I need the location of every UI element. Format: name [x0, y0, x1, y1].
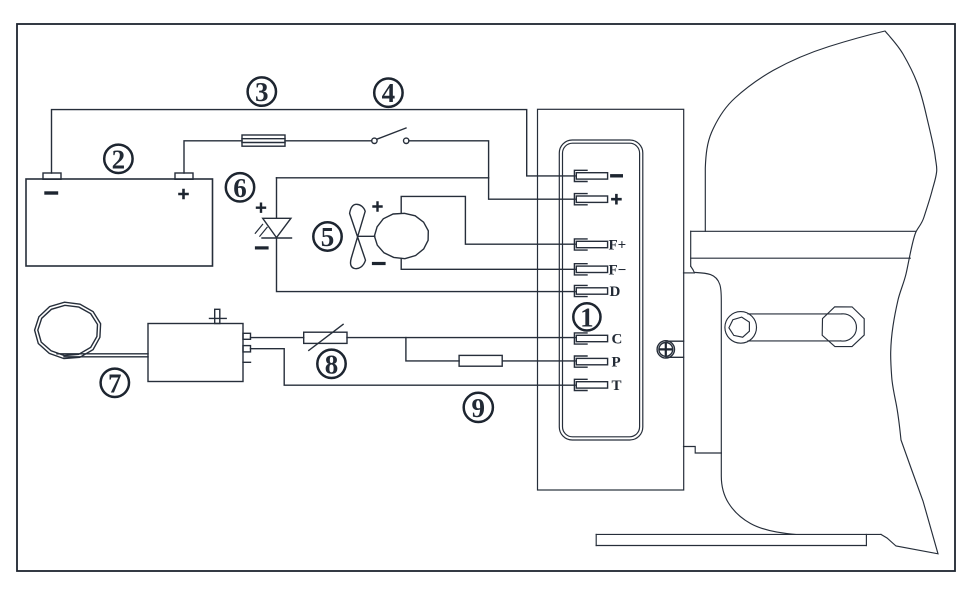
circled 9	[464, 393, 493, 423]
wire thermostat to thermistor	[251, 337, 304, 339]
svg-text:C: C	[612, 332, 623, 348]
circled 5	[313, 222, 341, 252]
label minus	[612, 174, 622, 177]
circled 7	[101, 368, 129, 398]
fuse 3	[242, 135, 285, 146]
wire motor minus to F- terminal	[401, 259, 575, 270]
terminal F-	[574, 264, 607, 275]
wire LED to D terminal	[277, 238, 576, 292]
compressor left lower bracket and body edge	[691, 266, 795, 534]
resistor 9	[459, 355, 502, 366]
thermostat capillary tube	[57, 354, 148, 357]
circled 6	[226, 173, 254, 203]
wire motor plus to F+ terminal	[401, 196, 575, 244]
svg-text:F+: F+	[609, 238, 627, 254]
circled 8	[317, 349, 345, 379]
svg-text:4: 4	[382, 78, 396, 108]
battery 2	[26, 173, 213, 266]
wire resistor to P terminal	[502, 360, 575, 362]
svg-text:1: 1	[580, 302, 594, 332]
compressor flange band	[691, 231, 916, 266]
terminal P	[574, 356, 607, 367]
wire switch to unit plus terminal	[409, 141, 575, 199]
wire battery plus to fuse	[184, 141, 242, 173]
svg-text:7: 7	[108, 368, 122, 398]
fan motor	[374, 213, 428, 258]
svg-text:P: P	[612, 355, 621, 371]
fan plus label	[374, 203, 382, 211]
terminal F+	[574, 239, 607, 250]
wire battery minus to unit minus terminal	[52, 110, 576, 176]
svg-text:T: T	[612, 378, 622, 394]
fan 5	[350, 204, 366, 268]
wire branch to resistor	[406, 338, 459, 361]
electronic unit 1 outer box	[538, 109, 684, 490]
circled 2	[104, 144, 132, 174]
thermostat 7 coil	[35, 302, 101, 358]
compressor bracket bottom	[684, 447, 722, 454]
wire thermistor to C terminal	[347, 337, 575, 339]
terminal plus	[574, 194, 607, 205]
terminal C	[574, 333, 607, 344]
svg-text:3: 3	[255, 77, 269, 107]
LED 6	[255, 178, 291, 248]
circled 4	[374, 78, 402, 108]
svg-text:2: 2	[112, 144, 126, 174]
fan minus label	[374, 262, 385, 265]
compressor shell outline	[705, 31, 938, 554]
svg-text:8: 8	[325, 349, 339, 379]
svg-text:5: 5	[321, 222, 335, 252]
circled 3	[248, 77, 276, 107]
label plus	[612, 195, 620, 203]
pipe terminal cover	[725, 307, 864, 347]
svg-text:F−: F−	[609, 262, 627, 278]
electronic unit inner rounded frame	[559, 140, 643, 440]
terminal minus	[574, 170, 607, 181]
terminal D	[574, 285, 607, 296]
svg-text:D: D	[610, 284, 621, 300]
wire LED feed from switch node	[277, 177, 489, 179]
circled 1	[573, 302, 600, 332]
wire thermostat to T terminal	[251, 349, 576, 386]
svg-text:9: 9	[472, 393, 486, 423]
switch 4	[372, 128, 409, 144]
terminal T	[574, 379, 607, 390]
svg-text:6: 6	[233, 173, 247, 203]
wire fuse to switch	[285, 140, 372, 142]
mounting screw	[657, 341, 683, 358]
thermistor 8	[304, 324, 347, 350]
base plate	[596, 534, 881, 545]
compressor bracket shelf top	[684, 272, 695, 274]
thermostat body	[148, 309, 251, 381]
wire fan hub to motor	[359, 235, 375, 237]
